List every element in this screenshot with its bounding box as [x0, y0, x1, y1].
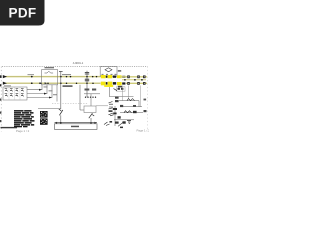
connector pair on vertical at x87 upper — [85, 72, 89, 74]
connector arrow W1 left — [3, 75, 7, 78]
diode glyph C — [109, 113, 114, 116]
right mid component R1 — [127, 99, 135, 101]
right connector row3 wire — [126, 82, 147, 84]
label below W2 — [63, 85, 73, 87]
relay K1 box — [42, 70, 58, 85]
lower right glyph column — [114, 106, 116, 126]
right connector row1 wire — [120, 76, 147, 78]
U1 top pin mark — [118, 70, 121, 71]
diode glyph B — [109, 107, 114, 109]
arrow mark right — [114, 89, 118, 91]
title bar text — [71, 126, 79, 128]
dotted pin row — [85, 97, 86, 98]
notes text block — [14, 110, 35, 127]
right connector pin gaps row3 — [128, 82, 145, 85]
dashed sheet border top — [2, 66, 148, 68]
connector box below yellow — [117, 87, 126, 91]
switch S2 — [89, 113, 93, 118]
connector text cluster mid — [85, 89, 90, 91]
U1 diamond symbol — [105, 68, 112, 72]
wire from F1 pin2 — [27, 85, 47, 94]
relay K1 label — [45, 67, 55, 68]
lower right ground — [127, 121, 131, 124]
lower right wiring — [120, 112, 143, 114]
vertical wire x87 — [86, 71, 88, 97]
wire x80 to box B3 — [80, 109, 84, 111]
PDF badge — [0, 0, 45, 26]
grid letter B — [0, 84, 1, 86]
F1 glyph labels — [5, 88, 24, 94]
connector tick top x60.8 — [59, 71, 63, 73]
lower right comp a — [124, 111, 132, 113]
svg-text:A 9001-1: A 9001-1 — [73, 61, 84, 65]
junction dots W1 — [31, 76, 33, 78]
right mid connector stack — [115, 97, 119, 99]
fuse glyphs row2 — [5, 95, 23, 97]
lower right diagonal — [118, 122, 123, 126]
staircase wire labels — [44, 87, 58, 96]
lower right comp b — [133, 111, 137, 113]
fuse glyphs row1 — [5, 90, 23, 92]
connector arrow W2 left — [3, 82, 7, 85]
grid letter E — [0, 120, 1, 122]
svg-text:PDF: PDF — [9, 6, 37, 21]
right connector pin gaps row1 — [128, 75, 145, 78]
QR code upper — [40, 111, 48, 118]
label above W1 at x28 — [28, 73, 35, 76]
marks right of title bar — [104, 122, 110, 126]
right connector marks row2 — [124, 79, 143, 81]
highlighted yellow wire row1 — [101, 75, 106, 78]
svg-text:Page 1 / 2: Page 1 / 2 — [137, 129, 150, 133]
right connector blocks row3 — [127, 82, 145, 85]
dashed sheet border right — [147, 67, 149, 132]
wire S1 to title bar — [60, 115, 62, 122]
riser arrows on W2 — [40, 82, 43, 84]
U1 bottom pin numbers — [102, 73, 117, 76]
wire mid horizontal — [84, 93, 100, 95]
box B3 — [84, 106, 96, 113]
wire B3 to glyph column — [96, 105, 108, 107]
wire S2 to title bar — [90, 118, 92, 123]
right connector drop x140 — [140, 86, 142, 107]
right mid small marks — [133, 105, 136, 107]
dimension line over title bar — [55, 122, 98, 124]
svg-text:Page 1 / 2: Page 1 / 2 — [16, 129, 30, 133]
bus line lower left — [38, 108, 61, 110]
right connector blocks row1 — [127, 75, 145, 78]
footer copyright text — [1, 127, 18, 128]
right connector drop x122 — [121, 86, 123, 101]
label above W1 — [62, 73, 71, 76]
switch S1 symbol — [59, 110, 62, 115]
F1 label above — [4, 84, 11, 87]
yellow cluster dots — [106, 76, 108, 78]
control unit U1 box — [100, 67, 117, 77]
dashed link to switch — [52, 103, 88, 105]
right connector row2 wire — [122, 79, 146, 81]
yellow drop wire — [110, 87, 134, 97]
title bar box — [55, 124, 98, 130]
vertical wire x60.8 — [60, 72, 62, 110]
lower right comp c — [118, 116, 121, 118]
wire from F1 pin1 — [27, 85, 42, 90]
diode glyph A — [109, 102, 114, 105]
grid letter A — [0, 75, 2, 78]
wire from F1 pin3 — [27, 85, 52, 98]
grid letter D — [0, 112, 1, 114]
F1 inner dividers — [9, 87, 20, 99]
wire W2 khaki — [6, 82, 101, 84]
junction dot on dimension line — [60, 122, 62, 124]
grid letter C — [0, 99, 1, 101]
right mid cluster base lines — [119, 100, 139, 102]
lower right tail marks — [120, 127, 123, 129]
wire riser x57 — [56, 85, 58, 102]
QR code lower — [40, 118, 48, 124]
connector pair on vertical at x87 lower — [85, 79, 89, 81]
relay K1 coil symbol — [45, 71, 54, 73]
right connector drop x128 — [127, 86, 129, 99]
fuse box F1 — [3, 87, 27, 100]
long vertical wire x80 — [79, 85, 81, 110]
highlighted yellow wire row2 — [101, 82, 106, 86]
wire W1 khaki — [6, 76, 101, 78]
junction dots W2 — [31, 82, 33, 84]
vertical wire x91 — [90, 94, 92, 106]
dashed sheet border left — [0, 67, 2, 132]
